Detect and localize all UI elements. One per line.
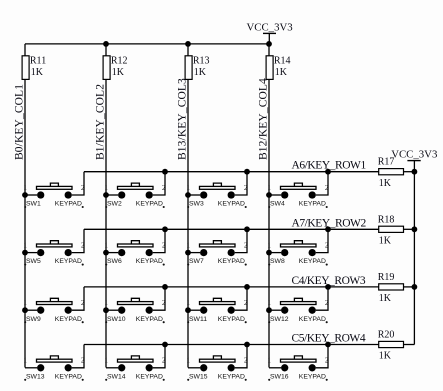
junction column 4 / SW8 pin 1 [266,250,272,256]
svg-text:1: 1 [104,298,108,307]
resistor R14 [266,56,273,80]
svg-text:SW7: SW7 [189,258,204,265]
svg-text:R20: R20 [378,330,395,341]
junction column 3 / SW7 pin 1 [185,250,191,256]
svg-text:1: 1 [104,240,108,249]
svg-text:1: 1 [267,240,271,249]
svg-text:SW1: SW1 [26,201,41,208]
switch SW8 [281,241,317,257]
svg-text:1K: 1K [275,67,288,78]
svg-text:1: 1 [186,356,190,365]
value dot SW11 [245,321,247,323]
value dot SW1 [82,206,84,208]
switch SW12 [281,298,317,314]
designator dot SW8 [268,264,270,266]
junction column 1 / SW1 pin 1 [22,192,28,198]
wire column 1 to SW9 pin 1 [25,309,37,311]
wire column 2 to SW6 pin 1 [106,252,118,254]
wire SW11 pin 2 to row 3 [235,287,247,310]
wire column 4 to SW4 pin 1 [269,194,281,196]
switch SW4 [281,183,317,199]
wire SW8 pin 2 to row 2 [316,229,328,252]
junction row 1 / switch branch x=247 [244,169,250,175]
wire column 4 to SW8 pin 1 [269,252,281,254]
svg-text:R14: R14 [274,55,291,66]
svg-text:R13: R13 [193,55,210,66]
svg-text:SW13: SW13 [26,373,45,380]
junction column 3 / SW3 pin 1 [185,192,191,198]
svg-text:VCC_3V3: VCC_3V3 [391,149,437,161]
svg-text:KEYPAD: KEYPAD [299,201,326,208]
wire row 1 horizontal [84,171,379,173]
switch SW1 [37,183,73,199]
value dot SW16 [326,379,328,381]
svg-text:R11: R11 [30,55,46,66]
svg-text:1K: 1K [379,178,392,189]
designator dot SW12 [268,321,270,323]
junction column 2 / SW6 pin 1 [103,250,109,256]
designator dot SW9 [24,321,26,323]
designator dot SW1 [24,206,26,208]
designator dot SW2 [105,206,107,208]
wire SW16 pin 2 to row 4 [316,345,328,368]
svg-text:KEYPAD: KEYPAD [55,373,82,380]
designator dot SW15 [187,379,189,381]
designator dot SW16 [268,379,270,381]
svg-text:KEYPAD: KEYPAD [136,201,163,208]
switch SW15 [200,356,236,372]
junction row 4 / switch branch x=247 [244,342,250,348]
value dot SW14 [163,379,165,381]
svg-text:SW14: SW14 [107,373,126,380]
wire from top rail to R14 [268,44,270,56]
wire column 3 to SW7 pin 1 [188,252,200,254]
wire R20 to right rail [404,344,415,346]
svg-text:SW5: SW5 [26,258,41,265]
junction top rail / VCC stem [266,41,272,47]
svg-text:KEYPAD: KEYPAD [55,201,82,208]
wire column 1 vertical [24,79,26,367]
svg-text:KEYPAD: KEYPAD [299,258,326,265]
wire column 4 to SW16 pin 1 [269,367,281,369]
wire column 1 to SW13 pin 1 [25,367,37,369]
wire column 4 vertical [268,79,270,367]
svg-text:SW12: SW12 [270,316,289,323]
switch SW6 [118,241,154,257]
value dot SW3 [245,206,247,208]
wire column 1 to SW5 pin 1 [25,252,37,254]
wire right rail vertical [413,172,415,345]
svg-text:1: 1 [267,183,271,192]
svg-text:SW15: SW15 [189,373,208,380]
svg-text:R12: R12 [111,55,128,66]
junction row 2 / switch branch x=247 [244,226,250,232]
svg-text:SW4: SW4 [270,201,285,208]
svg-text:KEYPAD: KEYPAD [136,258,163,265]
value dot SW10 [163,321,165,323]
wire SW1 pin 2 to row 1 [72,172,84,195]
junction column 2 / SW2 pin 1 [103,192,109,198]
svg-text:1K: 1K [31,67,44,78]
junction top rail / R12 [103,41,109,47]
wire SW15 pin 2 to row 4 [235,345,247,368]
designator dot SW14 [105,379,107,381]
switch SW7 [200,241,236,257]
svg-text:KEYPAD: KEYPAD [299,316,326,323]
wire SW14 pin 2 to row 4 [153,345,165,368]
wire column 3 to SW15 pin 1 [188,367,200,369]
svg-text:1: 1 [23,183,27,192]
svg-text:R18: R18 [378,214,395,225]
junction column 3 / SW11 pin 1 [185,307,191,313]
wire column 1 to SW1 pin 1 [25,194,37,196]
svg-text:KEYPAD: KEYPAD [218,258,245,265]
svg-text:KEYPAD: KEYPAD [55,316,82,323]
designator dot SW4 [268,206,270,208]
wire from top rail to R11 [24,44,26,56]
wire top rail [25,43,269,45]
junction right rail / R19 [412,284,418,290]
designator dot SW10 [105,321,107,323]
switch SW9 [37,298,73,314]
wire column 3 to SW11 pin 1 [188,309,200,311]
junction row 1 / switch branch x=328 [325,169,331,175]
resistor R19 [379,284,404,290]
wire column 2 to SW14 pin 1 [106,367,118,369]
svg-text:KEYPAD: KEYPAD [136,316,163,323]
svg-text:KEYPAD: KEYPAD [218,373,245,380]
svg-text:SW16: SW16 [270,373,289,380]
svg-text:KEYPAD: KEYPAD [218,316,245,323]
junction column 4 / SW4 pin 1 [266,192,272,198]
svg-text:1: 1 [23,356,27,365]
svg-text:1K: 1K [379,236,392,247]
svg-text:1K: 1K [379,351,392,362]
resistor R18 [379,226,404,232]
junction row 4 / switch branch x=165 [162,342,168,348]
junction row 3 / switch branch x=247 [244,284,250,290]
svg-text:B1/KEY_COL2: B1/KEY_COL2 [95,84,107,160]
designator dot SW6 [105,264,107,266]
switch SW2 [118,183,154,199]
resistor R13 [185,56,192,80]
wire SW12 pin 2 to row 3 [316,287,328,310]
wire SW6 pin 2 to row 2 [153,229,165,252]
wire column 3 vertical [187,79,189,367]
junction row 3 / switch branch x=165 [162,284,168,290]
svg-text:SW10: SW10 [107,316,126,323]
wire column 3 to SW3 pin 1 [188,194,200,196]
svg-text:1: 1 [186,240,190,249]
junction right rail / R18 [412,226,418,232]
svg-text:KEYPAD: KEYPAD [299,373,326,380]
svg-text:B12/KEY_COL4: B12/KEY_COL4 [258,78,270,160]
svg-text:B13/KEY_COL3: B13/KEY_COL3 [177,78,189,160]
wire column 4 to SW12 pin 1 [269,309,281,311]
junction row 1 / switch branch x=165 [162,169,168,175]
junction row 2 / switch branch x=165 [162,226,168,232]
value dot SW4 [326,206,328,208]
switch SW13 [37,356,73,372]
junction right rail / R17 [412,169,418,175]
wire SW3 pin 2 to row 1 [235,172,247,195]
wire SW9 pin 2 to row 3 [72,287,84,310]
designator dot SW5 [24,264,26,266]
power symbol VCC_3V3 (top) [263,33,276,44]
junction row 2 / switch branch x=328 [325,226,331,232]
svg-text:1: 1 [23,298,27,307]
value dot SW7 [245,264,247,266]
switch SW3 [200,183,236,199]
value dot SW5 [82,264,84,266]
wire from top rail to R12 [105,44,107,56]
junction column 1 / SW5 pin 1 [22,250,28,256]
value dot SW6 [163,264,165,266]
value dot SW8 [326,264,328,266]
svg-text:SW11: SW11 [189,316,207,323]
value dot SW9 [82,321,84,323]
wire SW4 pin 2 to row 1 [316,172,328,195]
value dot SW13 [82,379,84,381]
wire row 2 horizontal [84,228,379,230]
svg-text:KEYPAD: KEYPAD [136,373,163,380]
value dot SW12 [326,321,328,323]
svg-text:SW8: SW8 [270,258,285,265]
svg-text:1: 1 [267,356,271,365]
switch SW16 [281,356,317,372]
switch SW10 [118,298,154,314]
wire SW10 pin 2 to row 3 [153,287,165,310]
value dot SW15 [245,379,247,381]
junction column 1 / SW9 pin 1 [22,307,28,313]
wire column 2 to SW2 pin 1 [106,194,118,196]
power symbol VCC_3V3 (right) [407,161,420,172]
svg-text:1: 1 [186,183,190,192]
svg-text:1: 1 [104,183,108,192]
resistor R17 [379,169,404,175]
junction column 2 / SW10 pin 1 [103,307,109,313]
value dot SW2 [163,206,165,208]
junction top rail / R13 [185,41,191,47]
wire column 2 vertical [105,79,107,367]
designator dot SW13 [24,379,26,381]
wire SW7 pin 2 to row 2 [235,229,247,252]
svg-text:1K: 1K [194,67,207,78]
wire SW2 pin 2 to row 1 [153,172,165,195]
switch SW11 [200,298,236,314]
svg-text:SW3: SW3 [189,201,204,208]
junction row 3 / switch branch x=328 [325,284,331,290]
junction column 4 / SW12 pin 1 [266,307,272,313]
wire SW5 pin 2 to row 2 [72,229,84,252]
svg-text:KEYPAD: KEYPAD [55,258,82,265]
svg-text:1: 1 [104,356,108,365]
resistor R12 [103,56,110,80]
junction row 4 / switch branch x=328 [325,342,331,348]
svg-text:1: 1 [186,298,190,307]
svg-text:R19: R19 [378,272,395,283]
designator dot SW11 [187,321,189,323]
resistor R20 [379,341,404,347]
designator dot SW3 [187,206,189,208]
svg-text:SW6: SW6 [107,258,122,265]
wire R18 to right rail [404,228,415,230]
switch SW5 [37,241,73,257]
svg-text:1K: 1K [112,67,125,78]
switch SW14 [118,356,154,372]
wire column 2 to SW10 pin 1 [106,309,118,311]
svg-text:1: 1 [267,298,271,307]
wire R17 to right rail [404,171,415,173]
svg-text:VCC_3V3: VCC_3V3 [246,21,292,33]
wire from top rail to R13 [187,44,189,56]
wire R19 to right rail [404,286,415,288]
resistor R11 [22,56,29,80]
wire SW13 pin 2 to row 4 [72,345,84,368]
svg-text:KEYPAD: KEYPAD [218,201,245,208]
svg-text:SW9: SW9 [26,316,41,323]
wire row 3 horizontal [84,286,379,288]
svg-text:1K: 1K [379,293,392,304]
svg-text:1: 1 [23,240,27,249]
wire row 4 horizontal [84,344,379,346]
svg-text:B0/KEY_COL1: B0/KEY_COL1 [14,84,26,160]
designator dot SW7 [187,264,189,266]
svg-text:SW2: SW2 [107,201,122,208]
